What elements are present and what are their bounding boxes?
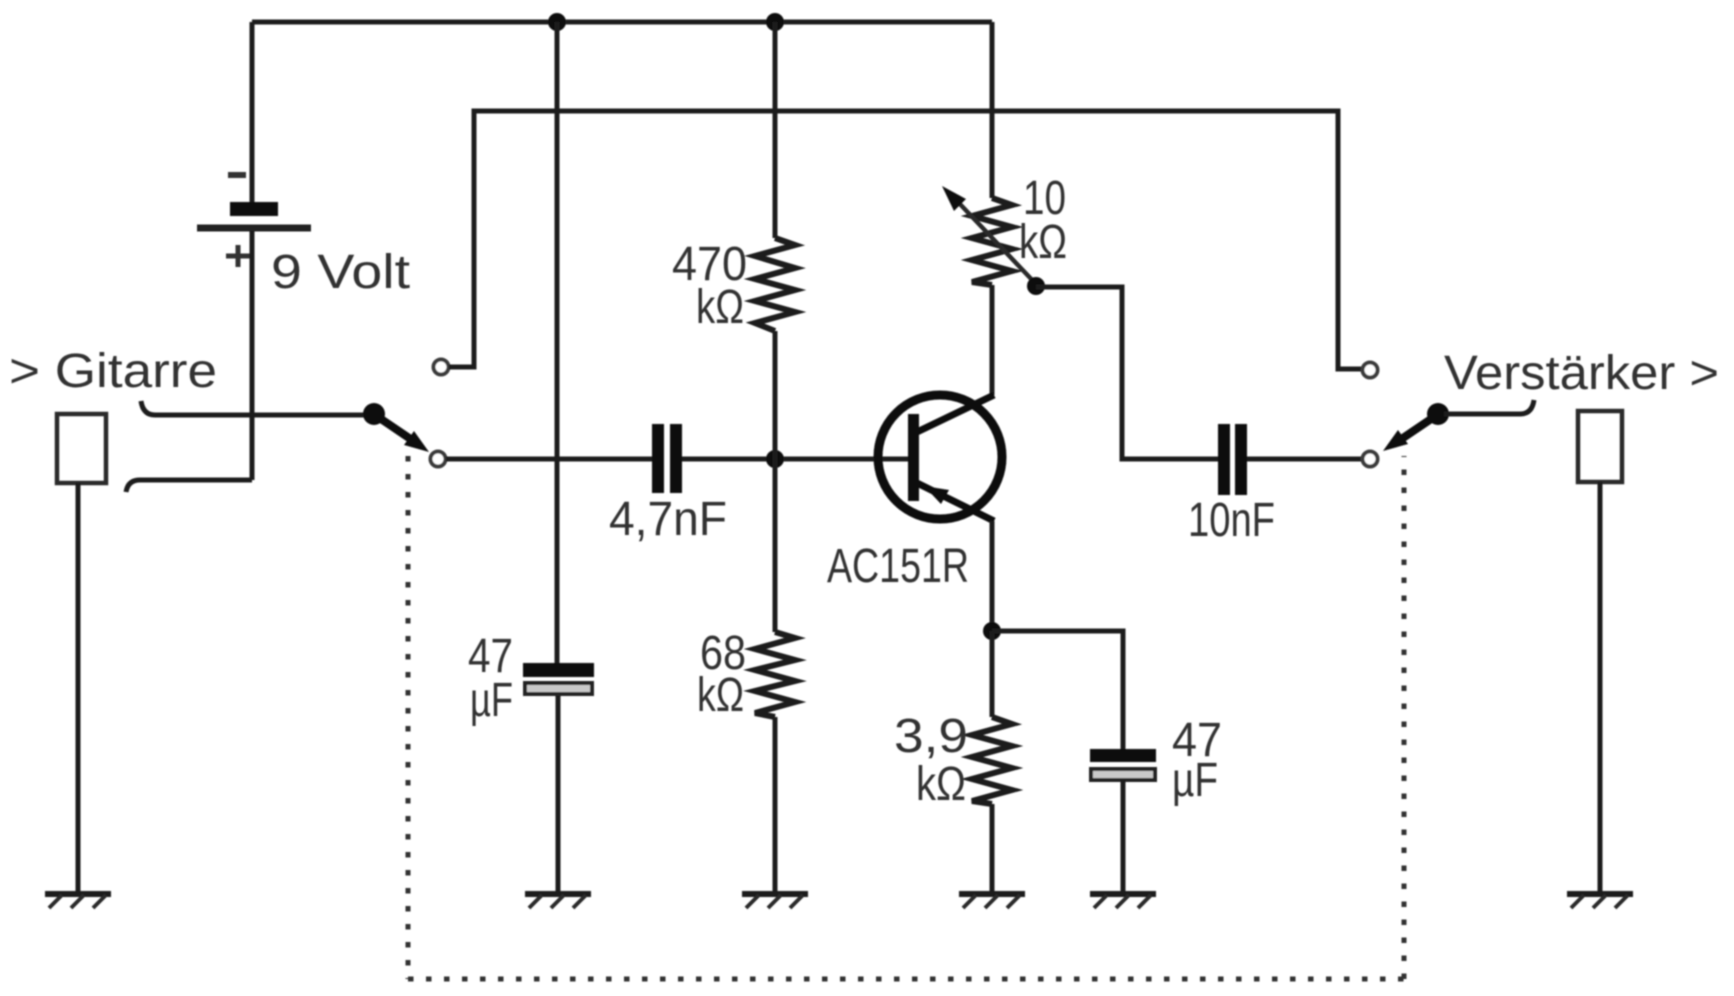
battery B1 plus sign — [226, 245, 250, 267]
switch S1b upper throw contact — [1363, 363, 1378, 378]
wire emitter node to bypass cap — [992, 631, 1123, 749]
svg-text:µF: µF — [470, 674, 513, 727]
capacitor C1 4,7nF plates — [658, 424, 676, 493]
battery B1 minus lead wire — [250, 22, 255, 202]
junction emitter node — [983, 622, 1001, 640]
switch S1a arrowhead — [404, 431, 429, 452]
wire 3.9k to ground — [990, 804, 995, 892]
battery B1 positive lead wire — [250, 231, 255, 480]
svg-text:µF: µF — [1172, 754, 1218, 807]
wire jack J1 sleeve to ground — [76, 483, 81, 892]
switch S1b arrowhead — [1383, 430, 1408, 451]
ground under bypass cap — [1090, 894, 1156, 908]
wire 470k bottom to base node — [773, 331, 778, 459]
junction on rail at 470k branch — [766, 13, 784, 31]
capacitor C3 47uF filter negative plate — [525, 683, 592, 694]
transistor Q1 emitter lead — [917, 483, 994, 521]
switch S1b pole dot — [1427, 403, 1449, 425]
wire emitter node to 3.9k — [990, 631, 995, 717]
wire from lower throw to coupling cap — [446, 457, 652, 462]
wire 47uF filter feed from rail — [555, 22, 560, 663]
junction base node — [766, 450, 784, 468]
battery B1 positive plate — [197, 225, 311, 232]
wire switch pole to amp with hook — [1444, 400, 1534, 414]
svg-text:AC151R: AC151R — [827, 540, 969, 593]
svg-text:Verstärker >: Verstärker > — [1444, 347, 1719, 400]
svg-text:kΩ: kΩ — [916, 758, 966, 811]
wire bypass cap to ground — [1121, 780, 1126, 892]
svg-text:> Gitarre: > Gitarre — [9, 345, 217, 398]
potentiometer P1 arrowhead — [942, 186, 966, 211]
svg-text:kΩ: kΩ — [696, 281, 744, 334]
wire 470k top feed — [773, 22, 778, 238]
wire emitter down — [990, 521, 995, 632]
dotted switch linkage line — [408, 456, 1404, 979]
wire pot wiper to output cap — [1036, 287, 1218, 459]
battery B1 minus sign — [228, 172, 246, 178]
switch S1b arm — [1400, 417, 1434, 440]
jack J2 amp plug body — [1578, 411, 1622, 482]
potentiometer P1 10k zigzag — [972, 198, 1012, 285]
capacitor C4 10nF plates — [1224, 424, 1241, 495]
wire jack J2 sleeve to ground — [1598, 482, 1603, 892]
jack J1 guitar plug body — [57, 414, 106, 483]
transistor Q1 circle — [878, 395, 1002, 519]
switch S1a upper throw contact — [434, 360, 449, 375]
transistor Q1 emitter arrowhead — [924, 486, 949, 504]
svg-text:kΩ: kΩ — [1019, 216, 1067, 269]
wire bypass rail from upper throw to right upper throw — [449, 111, 1361, 369]
svg-text:10nF: 10nF — [1188, 494, 1275, 547]
wire base node down to 68k — [773, 459, 778, 632]
wire top supply rail — [252, 20, 992, 25]
junction on rail at 47uF branch — [548, 13, 566, 31]
battery B1 negative plate — [230, 202, 278, 216]
svg-text:9 Volt: 9 Volt — [271, 246, 410, 299]
wire 10nF to output throw contact — [1247, 457, 1362, 462]
potentiometer P1 arrow shaft — [958, 202, 1035, 283]
transistor Q1 base bar — [908, 414, 919, 501]
potentiometer P1 wiper dot — [1027, 277, 1045, 295]
wire pot bottom to collector — [990, 285, 995, 395]
transistor Q1 collector lead — [917, 395, 994, 432]
switch S1a pole dot — [363, 403, 385, 425]
ground under 3.9k — [959, 894, 1025, 908]
wire cap to transistor base — [682, 457, 908, 462]
ground under filter cap — [525, 894, 591, 908]
capacitor C3 47uF filter positive plate — [523, 663, 594, 677]
resistor R3 3,9k zigzag — [972, 717, 1012, 804]
ground at amp jack — [1567, 894, 1633, 908]
wire filter cap to ground — [556, 696, 561, 892]
resistor R2 68k zigzag — [755, 632, 795, 717]
capacitor C2 47uF bypass negative plate — [1091, 769, 1155, 780]
wire guitar hot to switch pole with hook — [141, 401, 374, 415]
ground at guitar jack — [45, 894, 111, 908]
svg-text:4,7nF: 4,7nF — [609, 493, 727, 546]
ground under 68k — [742, 894, 808, 908]
svg-text:kΩ: kΩ — [697, 669, 744, 722]
wire pot top feed — [990, 22, 995, 198]
resistor R1 470k zigzag — [755, 238, 795, 331]
svg-text:3,9: 3,9 — [894, 710, 968, 763]
switch S1a arm — [378, 417, 412, 440]
switch S1a lower throw contact — [431, 452, 446, 467]
wire battery return to guitar jack with hook — [126, 480, 252, 492]
wire 68k to ground — [773, 717, 778, 892]
switch S1b lower throw contact — [1363, 452, 1378, 467]
capacitor C2 47uF bypass positive plate — [1090, 749, 1156, 762]
